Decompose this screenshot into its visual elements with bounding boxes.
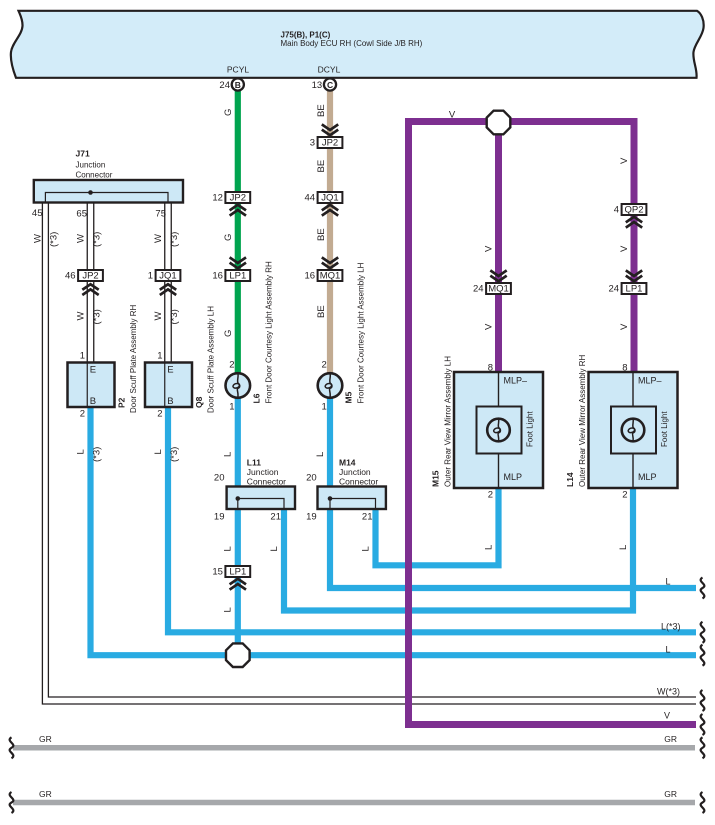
svg-text:Connector: Connector <box>247 477 286 487</box>
svg-text:L: L <box>665 645 670 655</box>
svg-text:16: 16 <box>305 271 316 282</box>
svg-text:W: W <box>76 234 87 243</box>
svg-text:LP1: LP1 <box>229 567 246 578</box>
svg-text:24: 24 <box>609 284 620 295</box>
wire V purple main run <box>409 122 697 725</box>
wire G green PCYL to L6 <box>235 85 241 375</box>
chevron above 3 JP2 <box>322 124 338 135</box>
svg-text:MLP: MLP <box>504 472 523 482</box>
svg-text:2: 2 <box>622 490 627 501</box>
svg-text:Door Scuff Plate Assembly RH: Door Scuff Plate Assembly RH <box>129 304 138 413</box>
ECU banner J75(B), P1(C) Main Body ECU RH <box>11 11 704 78</box>
wire L cyan L6 through L11 and LP1 to octagon <box>235 397 241 655</box>
svg-text:M14: M14 <box>339 458 356 468</box>
svg-text:L11: L11 <box>247 458 261 468</box>
svg-text:B: B <box>167 396 173 407</box>
svg-text:JQ1: JQ1 <box>321 193 338 204</box>
svg-text:Junction: Junction <box>339 467 371 477</box>
svg-text:(*3): (*3) <box>169 232 180 247</box>
connector 44 JQ1 <box>305 192 343 204</box>
svg-text:G: G <box>223 330 234 337</box>
svg-text:13: 13 <box>312 80 323 91</box>
svg-text:E: E <box>90 365 96 376</box>
svg-text:15: 15 <box>212 567 223 578</box>
chevron below 15 LP1 <box>230 579 246 590</box>
svg-text:V: V <box>484 245 495 252</box>
wire L cyan L11 pin21 to L14 pin2 <box>284 487 633 611</box>
svg-text:BE: BE <box>316 228 327 241</box>
svg-text:1: 1 <box>157 351 162 362</box>
svg-text:1: 1 <box>148 271 153 282</box>
chevron below 4 QP2 <box>626 217 642 228</box>
svg-text:Outer Rear View Mirror Assembl: Outer Rear View Mirror Assembly RH <box>578 354 587 487</box>
svg-text:W: W <box>153 312 164 321</box>
svg-text:V: V <box>664 711 670 721</box>
svg-text:24: 24 <box>473 284 484 295</box>
svg-text:JQ1: JQ1 <box>159 271 176 282</box>
wire L cyan Q8 to right edge <box>168 407 696 632</box>
svg-text:MLP: MLP <box>638 472 657 482</box>
svg-text:19: 19 <box>214 512 225 523</box>
svg-text:L: L <box>315 452 326 457</box>
lamp L6 Front Door Courtesy Light Assembly RH <box>226 261 274 412</box>
svg-text:PCYL: PCYL <box>227 65 249 75</box>
wire labels G green <box>223 109 234 337</box>
svg-text:GR: GR <box>39 789 52 799</box>
svg-text:V: V <box>449 110 456 121</box>
chevron above 16 MQ1 <box>322 257 338 268</box>
svg-text:Foot Light: Foot Light <box>526 411 535 447</box>
junction connector L11 <box>214 458 295 523</box>
svg-text:BE: BE <box>316 160 327 173</box>
wire labels V purple <box>449 110 630 331</box>
svg-text:2: 2 <box>157 409 162 420</box>
wire labels W (*3) white wires <box>32 232 180 325</box>
wire V purple branch to M15 <box>495 122 502 372</box>
svg-text:8: 8 <box>622 363 627 374</box>
svg-text:(*3): (*3) <box>92 309 103 324</box>
svg-text:M15: M15 <box>431 470 441 487</box>
svg-text:45: 45 <box>32 208 43 219</box>
svg-text:3: 3 <box>310 138 315 149</box>
svg-text:G: G <box>223 109 234 116</box>
wire L cyan M5 through M14 pin19 to right edge <box>330 397 696 588</box>
chevron above 16 LP1 <box>230 257 246 268</box>
svg-text:2: 2 <box>488 490 493 501</box>
svg-text:BE: BE <box>316 305 327 318</box>
chevron below 12 JP2 <box>230 205 246 216</box>
svg-text:L: L <box>484 545 495 550</box>
svg-text:L: L <box>361 546 372 551</box>
component L14 Outer Rear View Mirror Assembly RH <box>565 354 678 500</box>
svg-text:Main Body ECU RH (Cowl Side J/: Main Body ECU RH (Cowl Side J/B RH) <box>281 39 423 48</box>
svg-text:1: 1 <box>80 351 85 362</box>
connector 24 LP1 <box>609 283 647 295</box>
connector 46 JP2 <box>65 270 103 282</box>
wire W(*3) J71 pin45 to right edge <box>42 202 696 704</box>
svg-text:B: B <box>235 80 241 90</box>
svg-text:V: V <box>484 323 495 330</box>
svg-text:8: 8 <box>488 363 493 374</box>
component Q8 Door Scuff Plate Assembly LH <box>145 306 216 420</box>
svg-text:1: 1 <box>322 402 327 413</box>
svg-text:(*3): (*3) <box>48 232 59 247</box>
svg-text:MQ1: MQ1 <box>488 284 509 295</box>
svg-text:LP1: LP1 <box>626 284 643 295</box>
wire labels L cyan <box>223 452 629 613</box>
pin 13 C DCYL <box>312 78 336 91</box>
svg-text:V: V <box>619 157 630 164</box>
pin 24 B PCYL <box>219 78 243 91</box>
svg-text:(*3): (*3) <box>92 447 103 462</box>
connector 15 LP1 <box>212 566 250 578</box>
svg-text:20: 20 <box>306 473 317 484</box>
svg-text:G: G <box>223 234 234 241</box>
svg-text:LP1: LP1 <box>229 271 246 282</box>
junction connector M14 <box>306 458 386 523</box>
chevron below 44 JQ1 <box>322 205 338 216</box>
connector 4 QP2 <box>614 204 647 216</box>
chevron below 1 JQ1 <box>160 284 176 295</box>
svg-text:E: E <box>167 365 173 376</box>
svg-text:2: 2 <box>322 360 327 371</box>
svg-text:W: W <box>76 312 87 321</box>
wire W(*3) J71 pin75 to Q8 <box>165 202 172 363</box>
svg-text:1: 1 <box>229 402 234 413</box>
svg-text:75: 75 <box>155 209 166 220</box>
svg-text:24: 24 <box>219 80 230 91</box>
svg-text:JP2: JP2 <box>322 138 338 149</box>
svg-text:L(*3): L(*3) <box>661 622 681 632</box>
svg-text:Connector: Connector <box>339 477 378 487</box>
svg-text:V: V <box>619 323 630 330</box>
connector 24 MQ1 <box>473 283 511 295</box>
component M15 Outer Rear View Mirror Assembly LH <box>431 356 544 501</box>
svg-text:B: B <box>90 396 96 407</box>
svg-text:L: L <box>76 449 87 454</box>
svg-text:L14: L14 <box>565 472 575 487</box>
svg-text:21: 21 <box>362 512 373 523</box>
svg-text:MQ1: MQ1 <box>320 271 341 282</box>
svg-text:L: L <box>223 452 234 457</box>
svg-text:Junction: Junction <box>247 467 279 477</box>
svg-text:GR: GR <box>39 734 52 744</box>
right edge wire labels <box>657 577 681 721</box>
component P2 Door Scuff Plate Assembly RH <box>68 304 139 419</box>
svg-text:L: L <box>223 607 234 612</box>
wire L cyan M14 pin21 to M15 pin2 <box>376 487 499 565</box>
connector 3 JP2 <box>310 137 343 149</box>
svg-text:M5: M5 <box>344 391 354 403</box>
svg-text:L: L <box>223 546 234 551</box>
svg-text:12: 12 <box>212 193 223 204</box>
svg-text:(*3): (*3) <box>92 232 103 247</box>
svg-text:L: L <box>153 449 164 454</box>
svg-text:Junction: Junction <box>76 161 106 170</box>
wire W(*3) J71 pin65 to P2 <box>87 202 94 363</box>
wire L cyan P2 to right edge <box>91 407 697 655</box>
svg-text:Foot Light: Foot Light <box>660 411 669 447</box>
svg-text:J71: J71 <box>76 149 90 159</box>
svg-text:W(*3): W(*3) <box>657 687 680 697</box>
connector 1 JQ1 <box>148 270 181 282</box>
svg-text:65: 65 <box>76 209 87 220</box>
svg-text:V: V <box>619 245 630 252</box>
svg-text:(*3): (*3) <box>169 447 180 462</box>
svg-text:L6: L6 <box>251 393 261 403</box>
svg-text:QP2: QP2 <box>624 205 643 216</box>
svg-text:JP2: JP2 <box>230 193 246 204</box>
wire BE tan DCYL to M5 <box>327 85 333 375</box>
wire labels BE tan <box>316 104 327 318</box>
svg-text:C: C <box>327 80 333 90</box>
svg-text:MLP–: MLP– <box>638 376 662 386</box>
svg-text:JP2: JP2 <box>82 271 98 282</box>
svg-text:GR: GR <box>664 789 677 799</box>
svg-text:21: 21 <box>270 512 281 523</box>
junction connector J71 <box>32 149 183 220</box>
svg-text:BE: BE <box>316 104 327 117</box>
svg-text:GR: GR <box>664 734 677 744</box>
svg-text:P2: P2 <box>117 397 127 408</box>
connector 16 LP1 <box>212 270 250 282</box>
svg-text:(*3): (*3) <box>169 309 180 324</box>
svg-text:4: 4 <box>614 205 619 216</box>
svg-text:20: 20 <box>214 473 225 484</box>
wire labels L (*3) cyan below P2 Q8 <box>76 447 181 462</box>
svg-text:W: W <box>32 234 43 243</box>
connector 12 JP2 <box>212 192 250 204</box>
svg-text:44: 44 <box>305 193 316 204</box>
svg-text:Front Door Courtesy Light Asse: Front Door Courtesy Light Assembly RH <box>264 261 273 403</box>
ground bar GR upper <box>13 734 695 748</box>
svg-text:Door Scuff Plate Assembly LH: Door Scuff Plate Assembly LH <box>207 306 216 413</box>
svg-text:16: 16 <box>212 271 223 282</box>
chevron below 46 JP2 <box>82 284 98 295</box>
lamp M5 Front Door Courtesy Light Assembly LH <box>318 262 366 412</box>
svg-text:L: L <box>665 577 670 587</box>
svg-text:2: 2 <box>80 409 85 420</box>
connector 16 MQ1 <box>305 270 343 282</box>
svg-text:DCYL: DCYL <box>318 65 341 75</box>
svg-text:Outer Rear View Mirror Assembl: Outer Rear View Mirror Assembly LH <box>444 356 453 487</box>
svg-text:Q8: Q8 <box>194 396 204 408</box>
wire end squiggles <box>10 578 705 814</box>
svg-text:2: 2 <box>229 360 234 371</box>
svg-text:L: L <box>618 545 629 550</box>
svg-text:MLP–: MLP– <box>504 376 528 386</box>
svg-text:W: W <box>153 234 164 243</box>
svg-text:19: 19 <box>306 512 317 523</box>
ground bar GR lower <box>13 789 695 803</box>
svg-text:46: 46 <box>65 271 76 282</box>
svg-text:L: L <box>269 546 280 551</box>
chevron above 24 LP1 <box>626 270 642 281</box>
svg-text:Front Door Courtesy Light Asse: Front Door Courtesy Light Assembly LH <box>357 262 366 403</box>
svg-text:Connector: Connector <box>76 171 113 180</box>
chevron above 24 MQ1 <box>490 270 506 281</box>
junction octagon on V wire <box>487 111 511 135</box>
junction octagon on L wire <box>226 643 250 667</box>
